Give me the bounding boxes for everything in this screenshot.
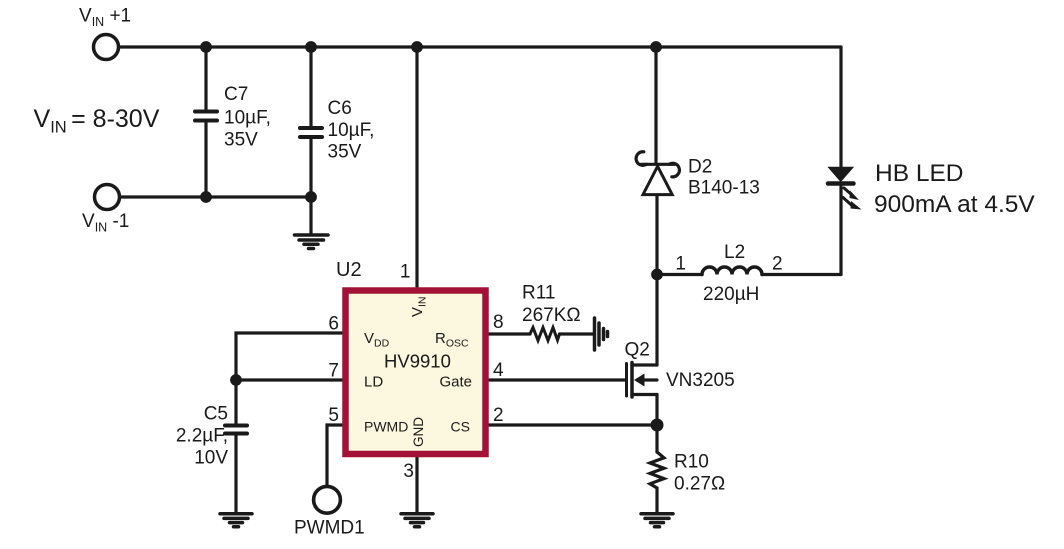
svg-text:VIN = 8-30V: VIN = 8-30V — [34, 105, 160, 137]
svg-text:HB LED: HB LED — [875, 160, 964, 187]
svg-text:R10: R10 — [674, 452, 709, 473]
wire pin8 — [489, 332, 530, 335]
capacitor C6 — [300, 128, 322, 137]
resistor R10 — [650, 452, 664, 488]
svg-text:HV9910: HV9910 — [384, 351, 451, 372]
svg-text:C7: C7 — [224, 84, 248, 105]
LED arrow 2 — [843, 198, 862, 210]
svg-text:8: 8 — [493, 312, 504, 333]
ground right of R11 (rotated) — [595, 318, 608, 350]
wire pin1 — [415, 47, 418, 287]
wire C6 top — [309, 47, 312, 126]
ground below pin3 — [401, 514, 433, 527]
junction node bottom rail C7 — [200, 191, 212, 203]
svg-text:PWMD: PWMD — [364, 419, 408, 435]
transistor Q2 drain wire — [655, 274, 658, 365]
ground below R10 — [641, 514, 673, 527]
svg-text:VN3205: VN3205 — [666, 370, 735, 391]
svg-text:1: 1 — [675, 254, 686, 275]
capacitor C7 — [195, 112, 217, 121]
svg-text:PWMD1: PWMD1 — [294, 518, 365, 539]
junction node LD/C5 — [230, 374, 242, 386]
terminal VIN-1 — [95, 185, 120, 210]
wire L2 left lead — [657, 273, 702, 276]
svg-text:CS: CS — [451, 419, 470, 435]
svg-text:35V: 35V — [224, 130, 258, 151]
svg-text:D2: D2 — [688, 157, 712, 178]
svg-text:0.27Ω: 0.27Ω — [674, 474, 725, 495]
svg-text:7: 7 — [328, 361, 339, 382]
svg-text:2: 2 — [772, 254, 783, 275]
wire top rail — [120, 45, 841, 48]
ground below C5 — [220, 514, 252, 527]
resistor R11 — [530, 328, 560, 341]
svg-text:35V: 35V — [328, 142, 362, 163]
svg-text:GND: GND — [411, 417, 426, 447]
junction node top rail C6 — [305, 41, 317, 53]
svg-text:VIN +1: VIN +1 — [79, 6, 131, 30]
transistor Q2 source stub — [632, 393, 657, 396]
junction node D2/L2 — [651, 269, 663, 281]
inductor L2 — [702, 267, 762, 274]
wire pin5 — [327, 425, 342, 486]
ground below C6 — [295, 235, 329, 249]
svg-text:B140-13: B140-13 — [688, 178, 760, 199]
wire LED bottom — [839, 186, 842, 275]
svg-text:C6: C6 — [328, 98, 352, 119]
svg-text:4: 4 — [493, 360, 504, 381]
svg-text:10V: 10V — [194, 448, 228, 469]
svg-text:Gate: Gate — [440, 374, 473, 391]
wire R10 top — [655, 425, 658, 452]
diode D2 left hook — [636, 152, 646, 166]
wire C6 bottom — [309, 139, 312, 234]
svg-text:2.2µF,: 2.2µF, — [176, 426, 228, 447]
wire pin3 — [415, 457, 418, 512]
svg-text:C5: C5 — [204, 404, 228, 425]
svg-text:VIN -1: VIN -1 — [82, 211, 129, 235]
junction node top rail C7 — [200, 41, 212, 53]
wire C7 top — [204, 47, 207, 110]
wire LED drop — [839, 47, 842, 167]
diode D2 triangle — [643, 166, 672, 194]
IC U2 HV9910 body — [346, 291, 486, 455]
wire pin7 — [236, 378, 342, 381]
wire bottom rail — [121, 195, 311, 198]
wire C5 bottom — [234, 436, 237, 513]
svg-text:10µF,: 10µF, — [328, 120, 375, 141]
LED cathode bar — [828, 181, 854, 186]
junction node CS/R10 — [651, 419, 664, 432]
diode D2 cathode bar — [641, 163, 675, 166]
svg-text:10µF,: 10µF, — [224, 108, 271, 129]
junction node top rail D2 — [650, 41, 662, 53]
transistor Q2 gate bar — [625, 364, 628, 397]
svg-text:3: 3 — [403, 461, 414, 482]
wire C7 bottom — [204, 123, 207, 198]
svg-text:R11: R11 — [522, 283, 555, 304]
capacitor C5 — [225, 426, 247, 434]
svg-text:6: 6 — [328, 314, 339, 335]
svg-text:L2: L2 — [724, 242, 745, 263]
diode D2 right hook — [669, 163, 679, 177]
transistor Q2 source wire — [655, 395, 658, 426]
wire L2 right lead — [762, 273, 841, 276]
svg-text:LD: LD — [364, 374, 383, 391]
svg-text:267KΩ: 267KΩ — [522, 305, 581, 326]
svg-text:5: 5 — [328, 405, 339, 426]
wire pin6 — [236, 333, 342, 378]
LED D triangle — [829, 168, 853, 182]
transistor Q2 body arrow — [634, 374, 645, 387]
wire pin4 to gate — [489, 378, 625, 381]
terminal PWMD1 — [314, 486, 341, 513]
svg-text:2: 2 — [493, 405, 504, 426]
transistor Q2 channel bar — [630, 363, 634, 398]
wire R10 bottom — [655, 488, 658, 512]
wire C5 top — [234, 380, 237, 424]
junction node bottom rail C6 — [305, 191, 317, 203]
transistor Q2 body stub — [644, 378, 657, 381]
transistor Q2 drain stub — [632, 363, 657, 366]
junction node top rail pin1 — [411, 41, 423, 53]
svg-text:Q2: Q2 — [625, 340, 650, 361]
svg-text:U2: U2 — [336, 259, 362, 281]
wire R11 to ground — [560, 332, 594, 335]
terminal VIN+1 — [94, 35, 119, 60]
svg-text:900mA at 4.5V: 900mA at 4.5V — [874, 191, 1035, 218]
wire D2 top — [654, 47, 657, 163]
wire D2 bottom — [655, 196, 658, 274]
LED arrow 1 — [844, 188, 859, 200]
svg-text:1: 1 — [400, 262, 411, 283]
svg-text:220µH: 220µH — [703, 284, 759, 305]
wire pin2 — [489, 423, 657, 426]
